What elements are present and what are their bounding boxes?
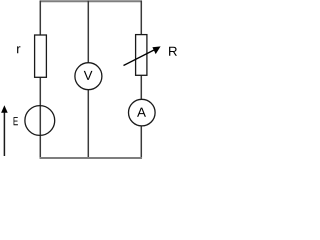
wire bottom xyxy=(40,157,142,159)
voltmeter V xyxy=(75,63,102,90)
label R xyxy=(169,47,177,56)
arrow E (emf direction) xyxy=(3,112,5,157)
wire left branch xyxy=(39,1,41,159)
label E xyxy=(14,117,18,125)
ammeter A xyxy=(129,99,156,126)
resistor r xyxy=(35,35,47,77)
wire middle branch xyxy=(87,1,89,159)
label A xyxy=(137,108,146,117)
arrow of rheostat xyxy=(124,50,155,66)
label V xyxy=(84,71,93,80)
label r xyxy=(17,46,20,53)
battery E (source circle) xyxy=(25,106,55,136)
wire top xyxy=(40,0,142,2)
rheostat R xyxy=(136,35,147,76)
wire right branch xyxy=(140,1,142,159)
